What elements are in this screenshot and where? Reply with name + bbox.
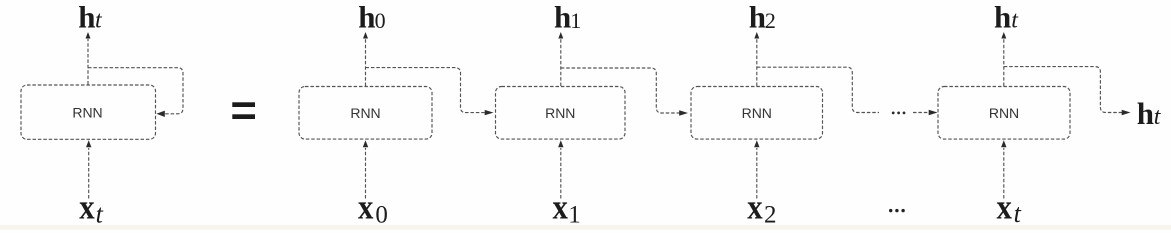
svg-text:0: 0: [375, 201, 388, 228]
wire: hidden state U3 to U4: [561, 68, 688, 116]
wire: input x_0 into U2 (t=0): [363, 140, 368, 198]
svg-text:1: 1: [570, 8, 581, 33]
label x_1: [553, 189, 581, 229]
wire: ellipsis into U5: [913, 110, 938, 115]
wire: hidden state U4 toward ellipsis: [757, 67, 879, 112]
wire: U5 output to h_t (right): [1004, 67, 1131, 116]
RNN cell U4 (t=2): [691, 87, 823, 140]
svg-text:x: x: [79, 189, 95, 227]
svg-text:h: h: [78, 0, 95, 34]
label h_t above U1: [78, 0, 103, 34]
equals sign: [232, 102, 255, 119]
svg-text:h: h: [749, 0, 766, 34]
RNN cell U5 (t=T): [938, 87, 1070, 140]
svg-text:1: 1: [568, 201, 581, 228]
node: ellipsis between x_2 and x_t: [889, 209, 905, 212]
svg-text:RNN: RNN: [545, 105, 575, 121]
wire: U5 (t=T) output up to h_t: [1001, 32, 1006, 86]
label x_0: [358, 189, 388, 229]
wire: input x_t into U5 (t=T): [1001, 140, 1006, 198]
wire: U1 output up: [86, 32, 91, 85]
wire: hidden state U2 to U3: [366, 68, 494, 116]
svg-text:x: x: [997, 189, 1013, 227]
label x_t: [997, 189, 1022, 228]
label h_t output (far right): [1137, 96, 1162, 131]
label x_t below U1: [79, 189, 103, 228]
svg-text:t: t: [96, 199, 104, 228]
svg-text:x: x: [747, 189, 763, 227]
svg-text:t: t: [1014, 199, 1022, 228]
svg-text:RNN: RNN: [350, 105, 380, 121]
svg-text:h: h: [994, 0, 1011, 34]
label h_t: [994, 0, 1019, 34]
svg-text:0: 0: [375, 8, 386, 33]
svg-text:RNN: RNN: [989, 105, 1019, 121]
wire: U2 (t=0) output up to h_0: [363, 32, 368, 86]
wire: U3 (t=1) output up to h_1: [558, 32, 563, 86]
wire: input x_2 into U4 (t=2): [754, 140, 759, 198]
wire: U4 (t=2) output up to h_2: [754, 32, 759, 86]
wire: input x_t into U1: [86, 140, 91, 198]
svg-text:x: x: [358, 189, 374, 227]
svg-text:x: x: [553, 189, 569, 227]
svg-text:2: 2: [764, 201, 777, 228]
RNN cell U3 (t=1): [496, 87, 626, 140]
wire: recurrent feedback loop of U1: [88, 68, 183, 117]
RNN cell U2 (t=0): [299, 87, 432, 140]
svg-text:h: h: [1137, 96, 1154, 131]
wire: input x_1 into U3 (t=1): [558, 140, 563, 198]
label h_1: [554, 0, 581, 34]
label h_2: [749, 0, 776, 34]
scan shading band: [0, 225, 1171, 230]
svg-text:h: h: [554, 0, 571, 34]
svg-text:2: 2: [765, 8, 776, 33]
svg-text:RNN: RNN: [742, 105, 772, 121]
node: ellipsis on hidden wire: [892, 112, 906, 115]
label h_0: [358, 0, 385, 34]
svg-text:h: h: [358, 0, 375, 34]
RNN cell U1 (folded): [21, 85, 156, 139]
label x_2: [747, 189, 776, 229]
svg-text:RNN: RNN: [72, 105, 102, 121]
